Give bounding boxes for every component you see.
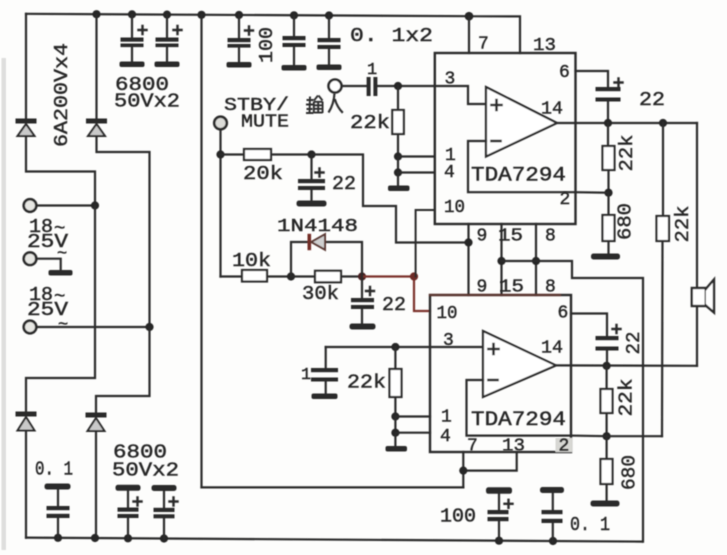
ground bar below 680 amp2 — [591, 501, 620, 507]
wire U1 inverting input internal to pin2 — [468, 141, 576, 192]
wire pin15 to pin8 link and away right then down to bottom rail — [502, 261, 644, 542]
svg-text:22: 22 — [382, 294, 406, 316]
svg-text:22k: 22k — [616, 135, 638, 172]
AC terminal 1 — [24, 199, 37, 212]
node amp1 output junction 22k fb — [604, 119, 612, 127]
op-amp U2 TDA7294 box — [430, 295, 571, 452]
STBY/MUTE terminal — [214, 117, 227, 130]
label shuru (Chinese input) glyphs drawn — [306, 93, 343, 113]
wire STBY terminal column down to 10k row — [219, 129, 221, 277]
capacitor 22uF at 30k mute timing — [350, 277, 376, 330]
wire amp2 pin2 row to bridge 22k — [571, 435, 662, 438]
ground bar below amp1 pin4 node — [388, 186, 410, 192]
wire 20k to node — [271, 153, 312, 155]
wire left edge down to diode D1 — [25, 14, 27, 119]
wire pin4 of amp1 and stub to ground bar — [398, 173, 435, 187]
wire amp2 pin6 to bootstrap cap — [571, 314, 607, 337]
capacitor 100uF top — [227, 15, 254, 68]
svg-text:~: ~ — [58, 316, 68, 335]
op-amp U2 plus input mark — [489, 344, 499, 354]
wire D1 anode to AC1 node — [26, 136, 95, 206]
node red junction pin10 net — [410, 272, 418, 280]
op-amp U2 minus input mark — [489, 379, 498, 382]
wire D4 anode down to bottom rail — [95, 431, 97, 538]
highlight box behind U2 pin2 label — [556, 438, 573, 452]
diode D2 top-right of bridge — [86, 119, 107, 137]
svg-text:1N4148: 1N4148 — [277, 216, 358, 237]
svg-text:15: 15 — [499, 278, 524, 298]
svg-text:22k: 22k — [350, 112, 390, 134]
diode 1N4148 — [308, 234, 326, 250]
resistor 22k amp1 feedback — [603, 146, 615, 170]
svg-text:0. 1: 0. 1 — [35, 459, 73, 481]
svg-text:3: 3 — [443, 331, 454, 351]
wire amp1 pin15 down to amp2 pin15 — [500, 224, 502, 295]
svg-text:14: 14 — [541, 339, 563, 359]
wire input node to pin3 of amp1 — [342, 86, 487, 104]
wire amp1 pin7 from top rail — [468, 16, 470, 53]
node pin8 junction — [532, 257, 540, 265]
wire mute red net to pin10 of both amps — [362, 277, 430, 312]
capacitor 22uF amp1 bootstrap — [596, 79, 623, 102]
wire D2 cathode up to top rail — [95, 15, 97, 119]
svg-text:0. 1: 0. 1 — [570, 514, 610, 536]
op-amp U1 triangle — [486, 87, 557, 157]
resistor 680 amp1 — [603, 215, 615, 241]
svg-text:7: 7 — [467, 437, 478, 457]
wire 30k row — [291, 275, 362, 277]
svg-text:2: 2 — [560, 190, 571, 210]
svg-text:10k: 10k — [232, 250, 271, 272]
wire D2 anode jog right to x150 column — [97, 136, 150, 327]
wire STBY node to 20k — [221, 153, 245, 155]
resistor 22k amp1 input bias — [392, 110, 404, 134]
op-amp U2 triangle — [483, 331, 556, 397]
diode D1 top-left of bridge 6A200Vx4 — [16, 119, 37, 137]
wire D3 anode down to bottom rail corner — [25, 431, 27, 538]
node pin9 mute junction — [464, 238, 472, 246]
op-amp U1 minus input mark — [492, 140, 501, 143]
svg-text:4: 4 — [440, 427, 451, 447]
svg-text:8: 8 — [545, 227, 556, 247]
wire bridge 22k column from amp1 output to amp2 pin2 node — [662, 123, 663, 436]
capacitor 6800uF top no.2 — [155, 15, 182, 67]
node AC3 junction — [145, 323, 153, 331]
capacitor 0.1 top no.2 — [317, 16, 342, 71]
svg-text:100: 100 — [256, 27, 278, 63]
wire amp1 pin9 down to amp2 pin9 — [467, 224, 469, 295]
svg-text:13: 13 — [502, 437, 525, 457]
capacitor 6800uF top no.1 — [120, 15, 147, 67]
resistor 10k — [242, 270, 267, 282]
resistor 22k bridge feedback — [657, 216, 670, 241]
node pin1 junction — [394, 152, 402, 160]
svg-text:3: 3 — [445, 70, 456, 90]
svg-text:22k: 22k — [347, 372, 386, 394]
svg-text:50Vx2: 50Vx2 — [112, 460, 179, 482]
node amp2 output junction — [603, 362, 611, 370]
loudspeaker — [692, 280, 714, 313]
wire 1uF cap lead from pin3 row — [325, 347, 327, 368]
wire amp2 680 leads — [605, 436, 607, 500]
wire amp2 pin3 row — [326, 346, 483, 348]
node 10k right junction — [287, 272, 295, 280]
svg-text:9: 9 — [477, 278, 488, 298]
svg-text:8: 8 — [545, 278, 556, 298]
ground bar below 680 amp1 — [591, 254, 620, 260]
wire amp1 output to speaker column — [696, 123, 698, 288]
svg-text:30k: 30k — [302, 283, 339, 305]
svg-text:22: 22 — [639, 89, 665, 111]
node pin4 junction — [394, 168, 402, 176]
wire amp2 22k bias leads — [394, 347, 396, 417]
svg-text:6: 6 — [558, 304, 569, 324]
svg-text:20k: 20k — [243, 163, 283, 185]
node 20k right junction with 22uF — [307, 150, 315, 158]
svg-text:680: 680 — [615, 203, 637, 240]
resistor 22k amp2 feedback — [601, 389, 613, 413]
scan artifact left page-edge band — [2, 58, 7, 550]
svg-text:22: 22 — [623, 332, 645, 355]
wire middle supply column x202 from top rail down — [200, 15, 202, 488]
wire U2 inverting input internal to pin2 — [467, 380, 572, 436]
resistor 22k amp2 input bias — [390, 369, 402, 397]
resistor 680 amp2 — [601, 459, 613, 484]
svg-text:13: 13 — [533, 36, 556, 56]
diode D3 bottom-left of bridge — [16, 412, 37, 431]
wire x150 column down, jog left to diode D4 — [96, 327, 150, 413]
ground bar at AC2 center tap — [49, 270, 73, 276]
svg-text:1: 1 — [441, 408, 452, 428]
op-amp U1 plus input mark — [492, 100, 502, 110]
tint on U2 top edge — [430, 294, 560, 296]
wire amp1 pin6 to bootstrap cap — [576, 71, 609, 87]
wire speaker to amp2 output — [696, 306, 698, 366]
capacitor 100uF bottom — [486, 487, 513, 540]
wire down to amp2 pin4 node — [394, 417, 396, 433]
wire AC1 node down, jog left to diode D3 — [26, 206, 95, 413]
node 30k right junction — [358, 272, 366, 280]
wire AC2 to ground bar — [36, 259, 61, 270]
svg-text:TDA7294: TDA7294 — [471, 409, 566, 432]
node junction dots on bottom rail — [54, 534, 557, 545]
wire AC1 terminal to node — [36, 204, 95, 206]
wire amp2 22k feedback leads — [605, 366, 607, 436]
svg-text:6A200Vx4: 6A200Vx4 — [51, 43, 73, 147]
svg-text:1: 1 — [301, 366, 311, 385]
node amp2 pin7/13 junction — [459, 467, 467, 475]
wire diode bypass loop over 30k — [291, 242, 362, 277]
node AC1 junction — [91, 201, 99, 209]
wire amp2 pin4 and stub to ground bar — [395, 433, 430, 446]
wire bottom of x202 column right to amp2 7/13 bracket — [202, 486, 464, 488]
node amp2 pin2 feedback junction — [603, 432, 611, 440]
svg-text:TDA7294: TDA7294 — [471, 165, 566, 188]
node amp1 output junction bridge 22k — [659, 119, 667, 127]
AC terminal 3 — [24, 321, 37, 334]
wire amp1 680 leads — [607, 193, 609, 254]
wire amp1 pin8 down to amp2 pin8 — [535, 224, 537, 295]
capacitor 6800uF bottom no.2 — [152, 485, 178, 539]
node amp2 pin4 junction — [391, 429, 399, 437]
capacitor 1uF input coupling — [367, 77, 378, 96]
op-amp U1 TDA7294 box — [435, 53, 576, 224]
resistor 20k — [244, 149, 271, 160]
svg-text:22k: 22k — [672, 206, 694, 243]
svg-text:50Vx2: 50Vx2 — [114, 91, 180, 113]
wire down to pin4 node — [397, 157, 399, 173]
svg-text:15: 15 — [498, 227, 523, 247]
node 20k left junction — [216, 150, 224, 158]
AC terminal 2 center tap — [24, 252, 37, 265]
capacitor 22uF at 20k — [297, 155, 327, 207]
svg-text:2: 2 — [559, 437, 570, 457]
svg-text:22k: 22k — [616, 379, 638, 417]
wire amp2 output row — [556, 364, 697, 367]
svg-text:680: 680 — [619, 455, 641, 490]
resistor 30k — [315, 271, 341, 283]
svg-text:10: 10 — [444, 198, 465, 218]
wire negative bottom rail — [26, 538, 642, 542]
svg-text:6: 6 — [559, 63, 570, 83]
node junction dots on top rail — [92, 10, 473, 20]
svg-text:10: 10 — [437, 304, 458, 324]
capacitor 0.1 top no.1 — [282, 15, 307, 70]
wire AC3 terminal to x150 column — [36, 326, 150, 328]
svg-text:9: 9 — [477, 227, 488, 247]
wire mute net from 20k node to pin9 node — [312, 155, 469, 243]
capacitor 22uF amp2 bootstrap — [596, 325, 621, 351]
node amp2 pin1 junction — [391, 412, 399, 420]
capacitor 1uF amp2 input — [311, 368, 338, 399]
svg-text:1: 1 — [367, 61, 377, 80]
svg-text:14: 14 — [541, 100, 563, 120]
svg-text:22: 22 — [332, 173, 356, 195]
wire bootstrap cap to output node — [607, 102, 609, 124]
capacitor 6800uF bottom no.1 — [116, 485, 142, 539]
wire pin1 of amp1 — [398, 155, 435, 157]
svg-text:7: 7 — [478, 35, 489, 55]
wire amp1 22k feedback leads — [607, 123, 610, 193]
wire amp1 output row — [557, 122, 697, 124]
node amp2 pin3 junction with 22k — [391, 343, 399, 351]
wire amp1 pin2 to feedback node — [576, 191, 609, 194]
node amp1 pin2 feedback junction — [604, 189, 612, 197]
wire amp2 bootstrap cap to output node — [606, 351, 608, 366]
svg-text:0. 1x2: 0. 1x2 — [350, 25, 433, 47]
ground bar below amp2 pin4 node — [386, 446, 408, 452]
wire amp2 pin7 and pin13 bracket — [463, 452, 516, 487]
node input junction with 22k bias — [394, 82, 402, 90]
capacitor 0.1 bottom-left — [45, 484, 71, 539]
wire 22k bias resistor leads — [397, 86, 399, 157]
wire amp2 pin1 — [395, 415, 430, 417]
input terminal — [329, 80, 342, 93]
wire positive top rail — [26, 14, 520, 53]
svg-text:4: 4 — [444, 163, 455, 183]
svg-text:100: 100 — [440, 506, 476, 528]
node pin15 junction — [497, 257, 505, 265]
diode D4 bottom-right of bridge — [86, 413, 107, 432]
svg-text:~: ~ — [57, 245, 67, 264]
capacitor 0.1 bottom-right — [540, 487, 564, 541]
svg-text:MUTE: MUTE — [241, 113, 289, 133]
wire 10k row — [221, 275, 292, 277]
wire amp1 pin10 leftward and down — [414, 210, 435, 277]
